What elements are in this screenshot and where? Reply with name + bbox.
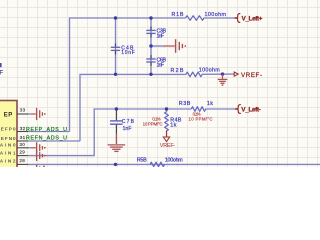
wire C4B link rail to rail — [115, 18, 117, 74]
ground right of C3B node — [164, 39, 187, 53]
wire C3B C6B chain — [150, 18, 152, 74]
wire pin32 to vertical — [28, 131, 70, 133]
svg-text:REFN0: REFN0 — [0, 136, 16, 141]
wire R4B top stub — [166, 109, 168, 112]
junction dot C3B gnd node — [149, 44, 152, 47]
svg-text:R2B: R2B — [171, 68, 184, 74]
capacitor C4B — [111, 44, 135, 57]
svg-text:F: F — [0, 69, 3, 76]
svg-text:V_Left+: V_Left+ — [242, 16, 263, 23]
svg-text:10 PPM/°C: 10 PPM/°C — [189, 117, 213, 122]
wire net V_Left+ top rail — [70, 18, 186, 132]
wire gnd stub at node — [151, 45, 164, 47]
svg-text:REFP0: REFP0 — [0, 126, 16, 131]
svg-text:10 PPM/°C: 10 PPM/°C — [143, 121, 163, 126]
junction dot pin28 row — [114, 163, 117, 166]
junction dot C7B top rail — [115, 107, 118, 110]
svg-text:1nF: 1nF — [157, 34, 165, 40]
IC U1 body (ADC) — [0, 101, 17, 181]
port V_Left- — [235, 105, 261, 114]
junction dot C6B bottom R2B row — [149, 73, 152, 76]
wire pin28 row bottom — [28, 163, 320, 165]
junction dot C4B bottom R2B row — [114, 73, 117, 76]
capacitor C7B — [110, 109, 135, 134]
wire — [204, 17, 235, 19]
resistor R3B — [179, 101, 213, 122]
svg-text:V_Left-: V_Left- — [241, 107, 260, 114]
pin 31 REFN0 — [0, 135, 28, 141]
svg-text:10nF: 10nF — [121, 50, 135, 56]
ground on pin 30 — [29, 142, 46, 153]
svg-text:AIN0: AIN0 — [0, 143, 16, 148]
svg-text:VREF-: VREF- — [160, 143, 176, 149]
junction dot R4B top rail — [165, 107, 168, 110]
svg-text:32: 32 — [20, 126, 26, 131]
svg-text:VREF-: VREF- — [241, 72, 262, 79]
svg-text:1k: 1k — [207, 101, 213, 107]
pin 28 AIN2 — [0, 158, 28, 165]
svg-text:1nF: 1nF — [157, 62, 165, 68]
pin 30 AIN0 — [0, 142, 29, 148]
wire net AIN R3B rail — [28, 109, 191, 156]
wire — [205, 108, 235, 110]
wire — [202, 73, 234, 75]
svg-text:R3B: R3B — [179, 101, 191, 107]
svg-text:30: 30 — [19, 142, 25, 147]
svg-text:28: 28 — [19, 158, 25, 163]
ground under R2B node — [218, 74, 228, 85]
ground on pin 33 — [29, 108, 46, 120]
power port VREF- down — [160, 131, 176, 149]
resistor R5B — [137, 158, 184, 167]
ground under C7B — [108, 134, 126, 151]
svg-text:100ohm: 100ohm — [165, 158, 184, 164]
svg-text:R5B: R5B — [137, 158, 147, 164]
power port VREF- arrow right — [234, 72, 263, 79]
svg-text:REFP_ADS_U: REFP_ADS_U — [26, 127, 67, 133]
svg-text:R1B: R1B — [172, 12, 184, 18]
svg-text:33: 33 — [20, 107, 26, 112]
resistor R2B — [171, 68, 221, 77]
svg-text:100ohm: 100ohm — [205, 12, 227, 18]
resistor R1B — [172, 12, 227, 20]
svg-text:1nF: 1nF — [123, 126, 132, 132]
svg-text:AIN2: AIN2 — [0, 159, 16, 164]
ground on pin 29 — [37, 150, 46, 161]
svg-text:29: 29 — [19, 150, 25, 155]
wire net VREF- R2B row — [80, 74, 186, 141]
svg-text:31: 31 — [20, 135, 26, 140]
leftover net label fragment at left edge — [0, 63, 2, 67]
svg-text:1k: 1k — [170, 122, 176, 128]
svg-text:EP: EP — [4, 112, 13, 118]
capacitor C6B — [146, 55, 166, 68]
wire pin31 to vertical — [28, 140, 80, 142]
port V_Left+ — [235, 14, 263, 23]
capacitor C3B — [146, 27, 166, 40]
svg-text:C7B: C7B — [122, 119, 135, 125]
pin 33 — [17, 107, 29, 114]
resistor R4B vertical — [143, 112, 182, 131]
ground on pin 27 clipped at bottom — [37, 165, 45, 167]
pin 32 REFP0 — [0, 126, 28, 132]
junction dot R2B/gnd — [221, 72, 224, 75]
junction dot C4B top rail — [114, 16, 117, 19]
svg-text:AIN1: AIN1 — [0, 151, 16, 156]
junction dot C3B top rail — [149, 16, 152, 19]
svg-text:100ohm: 100ohm — [199, 68, 221, 74]
svg-text:REFN_ADS_U: REFN_ADS_U — [26, 135, 67, 141]
pin 29 AIN1 — [0, 150, 28, 156]
